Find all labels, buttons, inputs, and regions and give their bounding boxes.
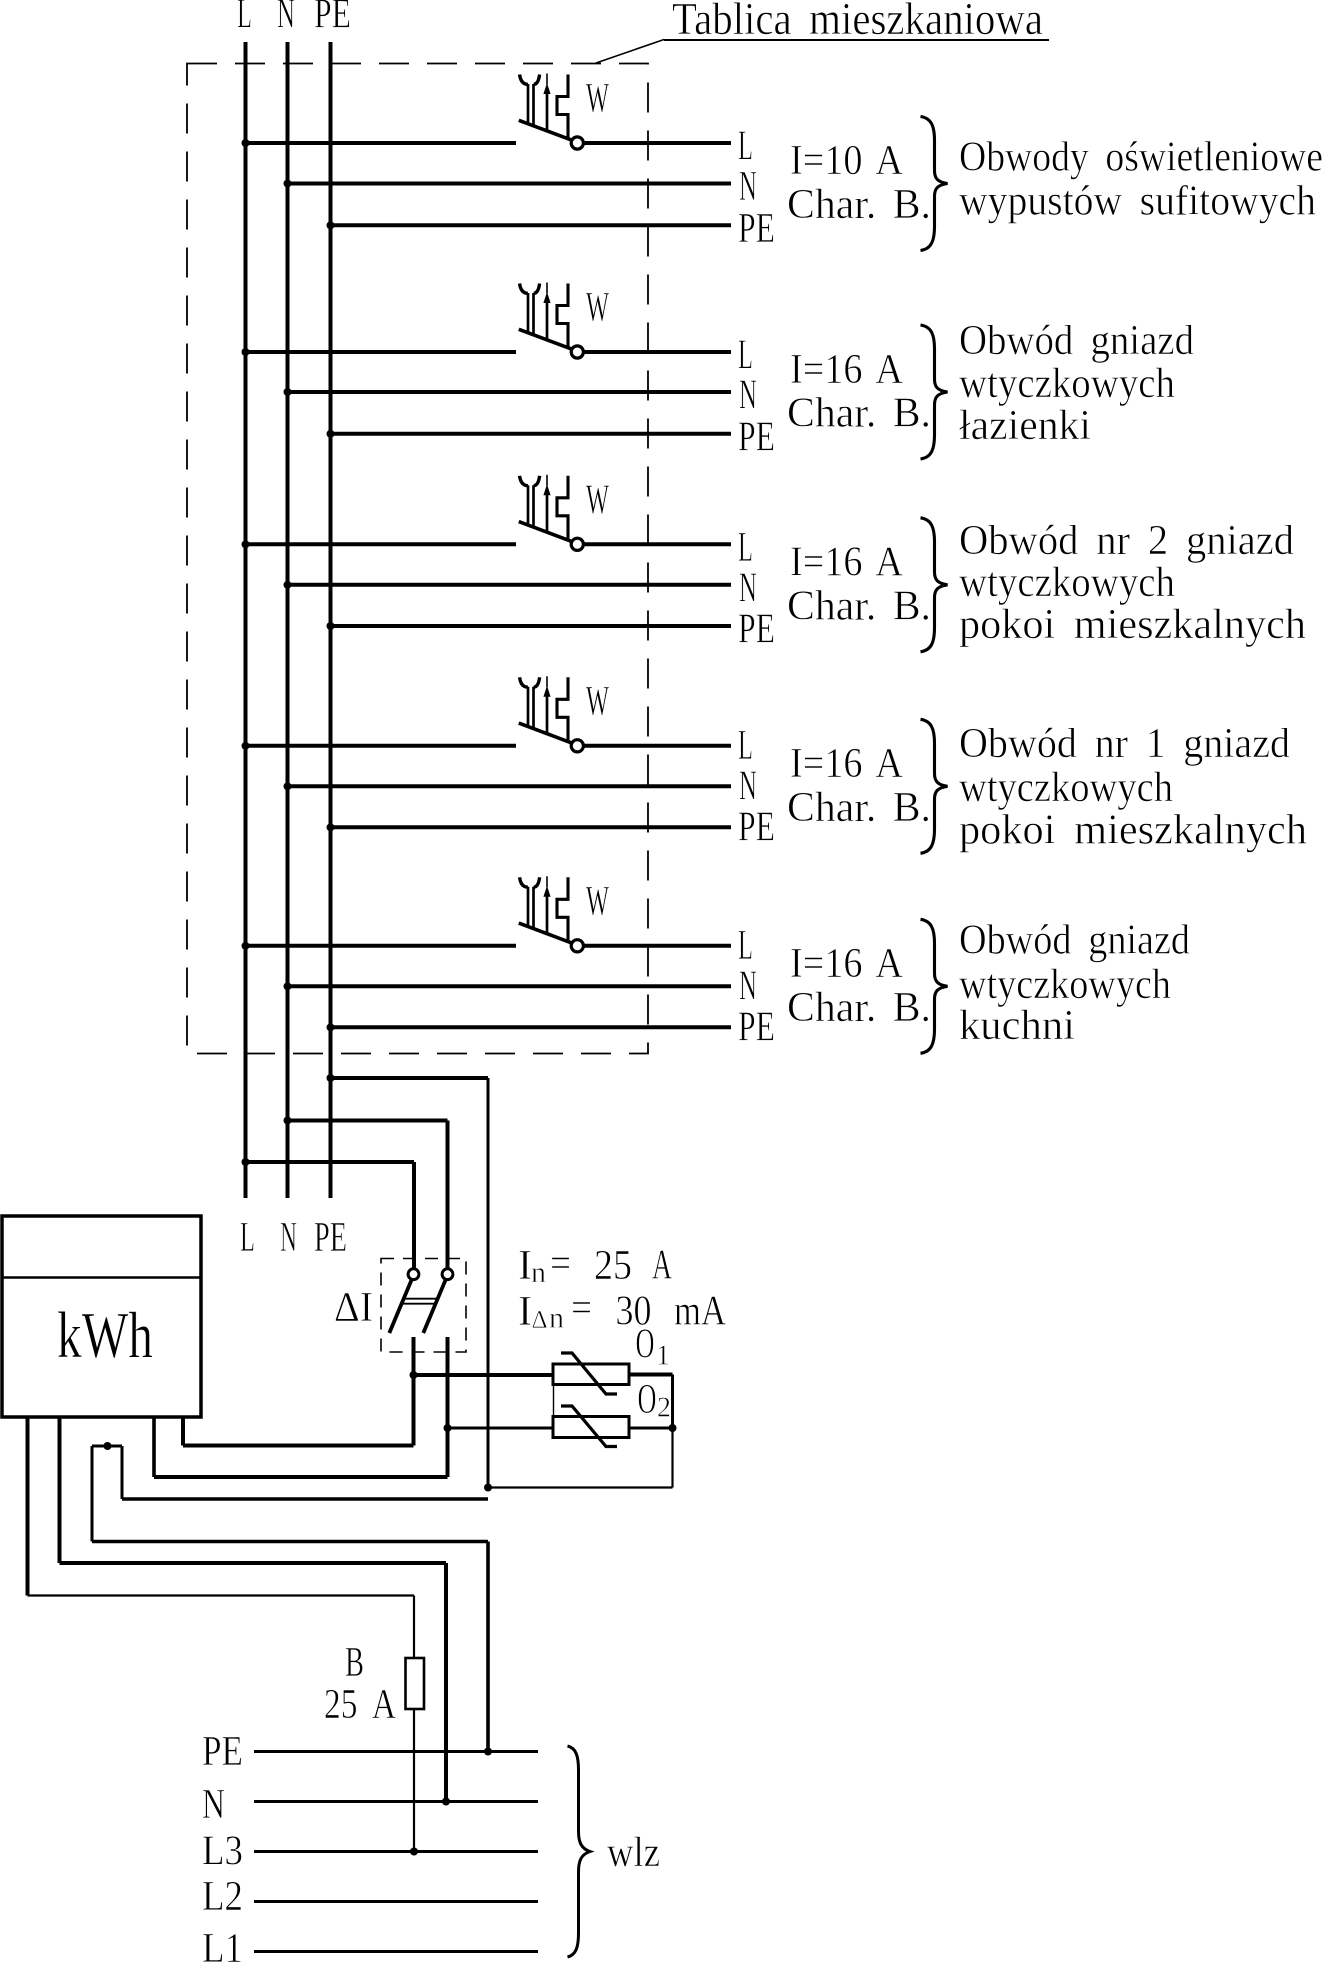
svg-text:PE: PE: [738, 414, 775, 460]
svg-text:wypustów sufitowych: wypustów sufitowych: [959, 179, 1316, 225]
svg-text:wlz: wlz: [607, 1830, 660, 1876]
svg-text:L1: L1: [202, 1926, 243, 1964]
svg-text:łazienki: łazienki: [959, 403, 1091, 449]
svg-text:L: L: [738, 124, 753, 170]
svg-text:Obwód gniazd: Obwód gniazd: [959, 918, 1190, 964]
svg-text:Obwód gniazd: Obwód gniazd: [959, 318, 1194, 364]
svg-text:1: 1: [656, 1341, 670, 1372]
svg-text:Δ: Δ: [532, 1307, 548, 1334]
svg-text:I: I: [518, 1289, 532, 1335]
svg-text:kWh: kWh: [57, 1299, 153, 1372]
svg-text:N: N: [739, 565, 757, 611]
svg-text:wtyczkowych: wtyczkowych: [959, 560, 1175, 606]
svg-text:N: N: [739, 373, 757, 419]
svg-text:=: =: [571, 1286, 592, 1332]
svg-text:25: 25: [594, 1243, 632, 1289]
svg-text:PE: PE: [738, 1004, 775, 1050]
svg-text:L: L: [738, 723, 753, 769]
svg-text:I=16 A: I=16 A: [790, 347, 904, 393]
svg-text:N: N: [739, 763, 757, 809]
svg-text:I=16 A: I=16 A: [790, 941, 904, 987]
svg-text:pokoi mieszkalnych: pokoi mieszkalnych: [959, 602, 1306, 648]
svg-text:PE: PE: [738, 607, 775, 653]
svg-text:I=16 A: I=16 A: [790, 539, 904, 585]
svg-text:Obwody oświetleniowe: Obwody oświetleniowe: [959, 135, 1323, 181]
svg-text:L: L: [738, 923, 753, 969]
svg-text:Char. B.: Char. B.: [787, 583, 931, 629]
svg-text:A: A: [652, 1243, 672, 1289]
svg-text:Obwód nr 1 gniazd: Obwód nr 1 gniazd: [959, 721, 1290, 767]
svg-text:Char. B.: Char. B.: [787, 182, 931, 228]
svg-text:2: 2: [657, 1393, 671, 1424]
svg-text:N: N: [280, 1215, 297, 1261]
svg-text:O: O: [636, 1322, 655, 1368]
svg-text:PE: PE: [738, 804, 775, 850]
svg-text:N: N: [739, 164, 757, 210]
svg-text:W: W: [586, 76, 609, 122]
svg-text:n: n: [531, 1256, 546, 1289]
svg-text:I=10 A: I=10 A: [790, 138, 904, 184]
svg-text:W: W: [586, 477, 609, 523]
svg-text:B: B: [345, 1640, 364, 1686]
svg-text:I: I: [518, 1243, 532, 1289]
svg-text:n: n: [549, 1302, 564, 1335]
svg-text:W: W: [586, 679, 609, 725]
svg-text:wtyczkowych: wtyczkowych: [959, 361, 1175, 407]
svg-text:L3: L3: [202, 1829, 243, 1875]
svg-text:N: N: [202, 1782, 225, 1828]
svg-text:Char. B.: Char. B.: [787, 785, 931, 831]
svg-text:N: N: [739, 963, 757, 1009]
svg-text:pokoi mieszkalnych: pokoi mieszkalnych: [959, 808, 1307, 854]
svg-text:L: L: [237, 0, 252, 38]
svg-text:kuchni: kuchni: [959, 1003, 1075, 1049]
svg-text:Char. B.: Char. B.: [787, 391, 931, 437]
svg-text:=: =: [550, 1241, 571, 1287]
svg-text:Char. B.: Char. B.: [787, 985, 931, 1031]
svg-text:W: W: [586, 879, 609, 925]
svg-text:O: O: [638, 1377, 657, 1423]
svg-text:PE: PE: [314, 0, 351, 38]
svg-text:Obwód nr 2 gniazd: Obwód nr 2 gniazd: [959, 518, 1294, 564]
svg-text:wtyczkowych: wtyczkowych: [959, 765, 1173, 811]
svg-text:PE: PE: [202, 1729, 243, 1775]
svg-text:N: N: [277, 0, 295, 38]
svg-text:I=16 A: I=16 A: [790, 741, 904, 787]
svg-text:Tablica mieszkaniowa: Tablica mieszkaniowa: [672, 0, 1043, 44]
svg-text:PE: PE: [314, 1215, 347, 1261]
svg-text:ΔI: ΔI: [334, 1285, 373, 1331]
svg-text:PE: PE: [738, 206, 775, 252]
svg-text:L: L: [240, 1215, 255, 1261]
svg-text:25 A: 25 A: [324, 1682, 397, 1728]
svg-text:L: L: [738, 525, 753, 571]
svg-text:mA: mA: [674, 1289, 727, 1335]
svg-text:L2: L2: [202, 1874, 243, 1920]
svg-text:W: W: [586, 285, 609, 331]
svg-text:wtyczkowych: wtyczkowych: [959, 962, 1171, 1008]
